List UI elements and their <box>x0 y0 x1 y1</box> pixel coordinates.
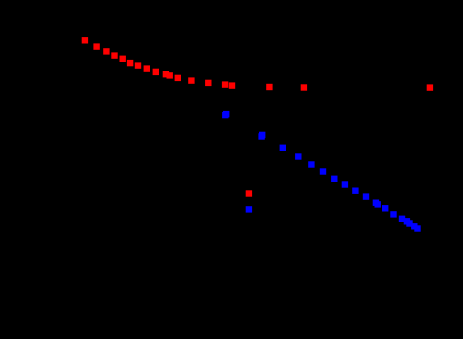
blue series point 6 <box>295 153 301 159</box>
red series point 3 <box>103 48 109 54</box>
blue series point 2 <box>223 111 229 117</box>
blue series point 9 <box>331 176 337 182</box>
blue series point 18 <box>404 218 410 224</box>
red series point 13 <box>188 77 194 83</box>
blue series point 3 <box>258 133 264 139</box>
red series point 19 <box>427 84 433 90</box>
blue series point 20 <box>411 223 417 229</box>
blue series point 13 <box>373 200 379 206</box>
red series point 15 <box>222 81 228 87</box>
blue series point 14 <box>375 201 381 207</box>
blue series point 17 <box>399 216 405 222</box>
blue series point 16 <box>390 211 396 217</box>
red series point 18 <box>301 84 307 90</box>
blue series point 10 <box>342 181 348 187</box>
legend marker blue <box>246 206 252 212</box>
red series point 8 <box>144 65 150 71</box>
blue series point 5 <box>280 145 286 151</box>
blue series point 12 <box>363 193 369 199</box>
red series point 7 <box>135 62 141 68</box>
blue series point 7 <box>308 161 314 167</box>
red series point 11 <box>167 72 173 78</box>
blue series point 11 <box>352 188 358 194</box>
red series point 5 <box>120 56 126 62</box>
blue series point 19 <box>406 220 412 226</box>
blue series point 15 <box>382 205 388 211</box>
blue series point 1 <box>222 112 228 118</box>
blue series point 21 <box>414 225 420 231</box>
blue series point 4 <box>259 132 265 138</box>
red series point 1 <box>82 37 88 43</box>
red series point 17 <box>266 84 272 90</box>
red series point 6 <box>127 60 133 66</box>
red series point 16 <box>229 82 235 88</box>
red series point 4 <box>111 52 117 58</box>
red series point 2 <box>93 43 99 49</box>
red series point 10 <box>163 71 169 77</box>
blue series point 8 <box>320 168 326 174</box>
red series point 12 <box>175 75 181 81</box>
red series point 14 <box>205 80 211 86</box>
legend marker red <box>246 190 252 196</box>
red series point 9 <box>153 69 159 75</box>
